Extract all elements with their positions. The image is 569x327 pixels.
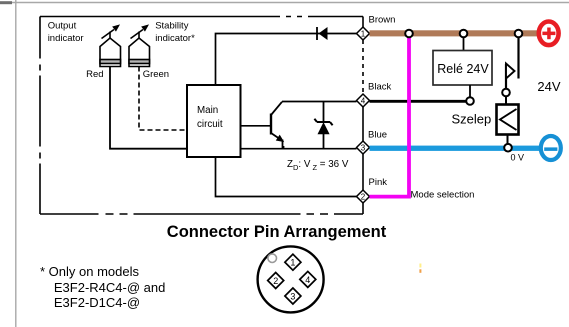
- LED D3 green stability indicator: [129, 25, 150, 66]
- svg-text:E3F2-R4C4-@ and: E3F2-R4C4-@ and: [54, 280, 165, 295]
- emitter stub to 0V rail: [283, 146, 285, 149]
- junction node brown/magenta: [405, 30, 413, 38]
- wire main circuit bottom to pin 2: [216, 157, 357, 197]
- svg-text:2: 2: [273, 276, 278, 286]
- brown wire +V supply: [370, 30, 538, 36]
- svg-text:* Only on models: * Only on models: [40, 264, 139, 279]
- 0V rail: main circuit to pin 3: [241, 148, 357, 150]
- magenta wire mode selection: [370, 34, 410, 197]
- svg-text:Mode selection: Mode selection: [411, 190, 475, 201]
- junction node relay bottom: [466, 97, 474, 105]
- transistor Q1 NPN output: [271, 102, 283, 149]
- junction node switch branch on brown: [515, 30, 523, 38]
- svg-text:2: 2: [361, 193, 366, 202]
- relay K1: [433, 34, 492, 102]
- diode D1 reverse-polarity protection: [317, 27, 328, 40]
- table frame lines (decorative): [0, 2, 569, 4]
- svg-text:0 V: 0 V: [511, 152, 525, 162]
- svg-text:Main: Main: [197, 105, 218, 116]
- svg-text:Blue: Blue: [368, 129, 387, 140]
- wire pin4 to pin3: [362, 107, 364, 141]
- svg-text:Stability: Stability: [155, 20, 189, 31]
- connector pin 4: [300, 271, 316, 287]
- supply terminal + 24V: [539, 22, 559, 46]
- pin 3 connector (Blue): [357, 141, 370, 154]
- svg-text:Output: Output: [48, 20, 77, 31]
- svg-text:Red: Red: [86, 69, 103, 80]
- pin 4 connector (Black): [357, 94, 370, 107]
- zener diode ZD 36V: [314, 102, 332, 149]
- junction node switch bottom: [502, 89, 510, 97]
- svg-text:indicator*: indicator*: [155, 33, 195, 44]
- supply terminal - 0V: [541, 136, 561, 160]
- connector pin 1: [285, 254, 301, 270]
- svg-text:ZD: V Z = 36 V: ZD: V Z = 36 V: [287, 159, 349, 172]
- connector face circle: [258, 246, 324, 312]
- svg-text:1: 1: [361, 30, 366, 39]
- svg-text:Connector Pin Arrangement: Connector Pin Arrangement: [167, 223, 387, 241]
- connector keying notch: [268, 254, 277, 263]
- wire red LED to 0V rail: [110, 67, 187, 149]
- wire Vcc: main circuit top to pin 1: [216, 34, 357, 86]
- switch S1: [506, 34, 519, 90]
- svg-text:4: 4: [305, 275, 310, 285]
- collector rail to pin 4: [282, 101, 357, 103]
- wire green LED dashed to main circuit: [139, 67, 187, 131]
- junction node relay top: [460, 30, 468, 38]
- stray artifact dots (decorative): [419, 264, 421, 268]
- junction node valve to 0V: [504, 144, 512, 152]
- svg-text:Black: Black: [368, 82, 391, 93]
- LED D2 red output indicator: [100, 25, 121, 66]
- blue wire 0V: [370, 146, 540, 151]
- wire base: main circuit to Q1: [241, 125, 271, 127]
- svg-text:3: 3: [361, 144, 366, 153]
- pin 2 connector (Pink): [357, 190, 370, 203]
- connector pin 3: [285, 288, 301, 304]
- wire pin3 to pin2: [362, 154, 364, 190]
- svg-text:1: 1: [290, 258, 295, 268]
- svg-text:24V: 24V: [537, 79, 560, 94]
- main circuit block U1: [187, 85, 241, 157]
- pin 1 connector (Brown): [357, 27, 370, 40]
- valve Szelep: [497, 96, 519, 147]
- svg-text:Pink: Pink: [369, 177, 388, 188]
- svg-text:Szelep: Szelep: [452, 112, 492, 127]
- svg-text:E3F2-D1C4-@: E3F2-D1C4-@: [54, 295, 140, 310]
- svg-text:4: 4: [361, 97, 366, 106]
- svg-text:circuit: circuit: [197, 119, 223, 130]
- black wire output load: [370, 100, 471, 103]
- svg-text:Brown: Brown: [369, 14, 396, 25]
- svg-text:Green: Green: [143, 69, 169, 80]
- svg-text:3: 3: [290, 291, 295, 301]
- svg-text:Relé 24V: Relé 24V: [437, 62, 489, 76]
- connector pin 2: [268, 273, 284, 289]
- sensor enclosure (dash-dot outline): [40, 17, 363, 215]
- svg-text:indicator: indicator: [48, 33, 84, 44]
- dashed segment pin1 to pin4: [362, 40, 364, 94]
